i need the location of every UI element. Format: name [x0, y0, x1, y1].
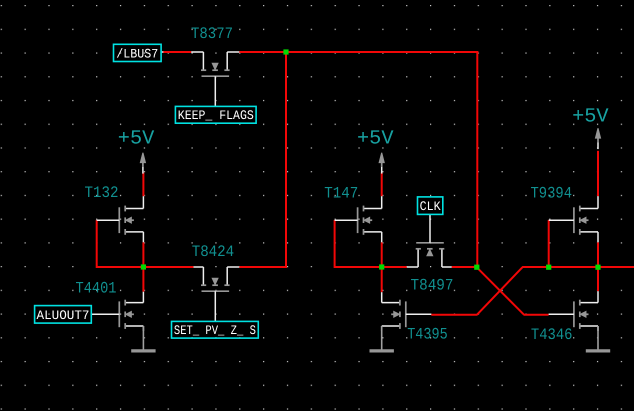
ground under T4346 — [586, 326, 610, 351]
junction node right rail — [595, 265, 600, 270]
label T147 — [324, 184, 358, 202]
wire /LBUS7 to T8377 source — [163, 51, 191, 53]
wire vertical from top junction down — [285, 52, 287, 268]
wire junction down to T4346 drain — [597, 267, 599, 291]
pin stub /LBUS7 — [161, 51, 164, 53]
transistor T9394 — [549, 196, 598, 242]
svg-text:T8424: T8424 — [192, 243, 235, 261]
wire T132 gate drop — [96, 220, 98, 268]
wire T4395 gate to X — [431, 314, 477, 316]
wire X diagonal lower-left to upper-right — [477, 267, 523, 315]
junction node middle rail — [379, 264, 384, 269]
svg-text:+5V: +5V — [572, 106, 609, 129]
svg-text:ALUOUT7: ALUOUT7 — [37, 308, 90, 323]
wire right rail to edge — [522, 266, 634, 268]
transistor T4395 — [382, 292, 432, 331]
label +5V middle — [357, 128, 394, 151]
label T8377 — [191, 25, 233, 43]
net label /LBUS7 — [114, 44, 162, 61]
svg-text:T147: T147 — [324, 184, 358, 202]
wire junction down to T4395 drain — [381, 267, 383, 292]
wire X diagonal upper-left to lower-right — [477, 267, 524, 315]
svg-text:KEEP_ FLAGS: KEEP_ FLAGS — [178, 108, 254, 123]
net label KEEP_ FLAGS — [175, 106, 256, 123]
wire +5V to T132 drain — [142, 173, 144, 197]
wire X to T4346 gate — [524, 314, 549, 316]
wire T132 source to junction — [142, 242, 144, 267]
transistor T132 — [97, 196, 144, 242]
net label CLK — [418, 197, 443, 215]
svg-text:+5V: +5V — [118, 128, 155, 151]
wire junction down to T4401 drain — [142, 267, 144, 292]
transistor T4401 — [91, 292, 143, 331]
svg-text:T9394: T9394 — [531, 184, 573, 202]
wire corner to T8424 drain — [239, 266, 287, 268]
power +5V symbol left — [140, 153, 145, 174]
label T8497 — [411, 276, 454, 294]
junction node X left — [474, 265, 479, 270]
ground under T4401 — [131, 326, 155, 351]
wire T147 source to junction — [381, 242, 383, 267]
wire T147 gate drop — [334, 220, 336, 268]
label T4395 — [407, 326, 448, 344]
label T4346 — [531, 326, 573, 344]
power +5V symbol middle — [379, 153, 384, 174]
wire long vertical right drop — [476, 51, 478, 268]
net label ALUOUT7 — [35, 306, 92, 324]
label +5V left — [118, 128, 155, 151]
svg-text:CLK: CLK — [420, 199, 441, 214]
label +5V right — [572, 106, 609, 129]
svg-text:T132: T132 — [85, 184, 119, 202]
transistor T8424 — [194, 267, 240, 321]
wire T9394 gate drop — [548, 220, 550, 268]
power +5V symbol right — [596, 128, 601, 149]
wire middle rail — [335, 266, 407, 268]
svg-text:SET_ PV_ Z_ S: SET_ PV_ Z_ S — [174, 323, 256, 338]
svg-text:T8377: T8377 — [191, 25, 233, 43]
wire +5V to T9394 drain — [597, 151, 599, 196]
junction node top rail — [283, 49, 288, 54]
ground under T4395 — [370, 326, 394, 351]
wire left rail — [97, 266, 194, 268]
svg-text:T4346: T4346 — [531, 326, 573, 344]
wire T8497 drain to X-left junction — [452, 266, 478, 268]
svg-text:T4401: T4401 — [76, 279, 117, 297]
transistor T147 — [335, 196, 382, 242]
svg-text:+5V: +5V — [357, 128, 394, 151]
net label SET_ PV_ Z_ S — [172, 321, 259, 338]
svg-text:/LBUS7: /LBUS7 — [116, 46, 158, 61]
transistor T8377 — [191, 52, 239, 106]
junction node left rail — [141, 264, 146, 269]
label T4401 — [76, 279, 117, 297]
wire T8377 drain to corner (top rail) — [239, 51, 478, 53]
wire +5V to T147 drain — [381, 173, 383, 197]
svg-text:T8497: T8497 — [411, 276, 454, 294]
label T132 — [85, 184, 119, 202]
svg-text:T4395: T4395 — [407, 326, 448, 344]
transistor T8497 — [407, 214, 452, 267]
transistor T4346 — [549, 291, 598, 331]
label T8424 — [192, 243, 235, 261]
junction node X right — [546, 265, 551, 270]
wire T9394 source to junction — [597, 242, 599, 267]
label T9394 — [531, 184, 573, 202]
